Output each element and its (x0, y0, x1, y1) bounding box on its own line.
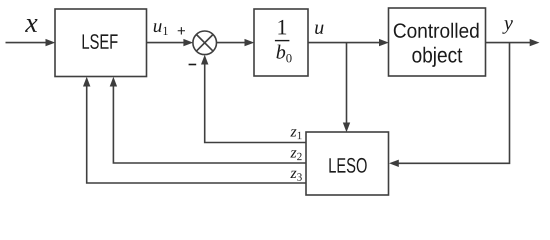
summing junction X diagonal 1 (196, 35, 213, 52)
label LESO (329, 158, 366, 173)
wire u branch down to LESO top (346, 43, 348, 125)
arrowhead into Controlled object (379, 39, 389, 46)
label y (502, 20, 513, 34)
label z2 (290, 150, 301, 160)
arrowhead z1 into summing junction bottom (201, 55, 208, 65)
arrowhead output y (530, 39, 540, 46)
wire z3 from LESO to LSEF bottom (87, 85, 306, 184)
wire input x into LSEF (6, 42, 48, 44)
arrowhead into LSEF (46, 39, 56, 46)
label object (412, 47, 462, 67)
arrowhead u into LESO top (343, 123, 350, 133)
summing junction U1 circle (193, 31, 217, 55)
label u (315, 25, 323, 34)
block Controlled object (389, 8, 486, 76)
arrowhead into summing junction left (183, 39, 193, 46)
wire summing junction to 1/b0 (217, 42, 247, 44)
label minus sign (189, 64, 197, 66)
label z1 (290, 129, 301, 139)
label z3 (290, 171, 302, 181)
block LSEF (55, 9, 147, 77)
fraction denominator b0 (277, 45, 292, 63)
wire Controlled object to output y (486, 42, 532, 44)
wire z2 from LESO to LSEF bottom (113, 85, 306, 164)
wire z1 from LESO to summing junction (205, 62, 306, 143)
arrowhead z2 into LSEF bottom (110, 77, 117, 87)
block 1/b0 (254, 9, 308, 76)
label LSEF (83, 34, 118, 49)
wire y feedback down and left into LESO right (397, 43, 510, 164)
wire 1/b0 to Controlled object (node u) (308, 42, 381, 44)
arrowhead y feedback into LESO right (389, 160, 399, 167)
block LESO (306, 132, 389, 195)
fraction numerator 1 (278, 20, 286, 35)
label x (25, 19, 38, 32)
label u1 (154, 23, 168, 35)
label Controlled (394, 23, 479, 38)
fraction bar (275, 40, 290, 41)
arrowhead z3 into LSEF bottom (83, 77, 90, 87)
label plus sign (178, 27, 185, 34)
arrowhead into 1/b0 (245, 39, 255, 46)
wire LSEF to summing junction (147, 42, 186, 44)
summing junction X diagonal 2 (196, 35, 213, 52)
